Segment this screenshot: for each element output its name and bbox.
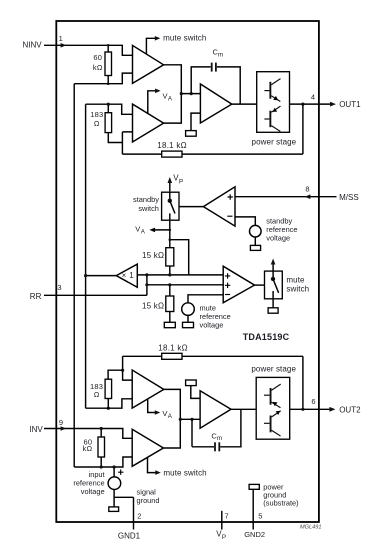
svg-text:18.1 kΩ: 18.1 kΩ [157,141,187,150]
svg-text:voltage: voltage [200,320,224,329]
svg-text:mute: mute [286,276,305,285]
svg-text:standby: standby [133,195,159,204]
svg-text:4: 4 [311,93,315,102]
svg-text:power stage: power stage [251,365,296,374]
svg-text:(substrate): (substrate) [263,499,298,508]
svg-text:ground: ground [137,496,160,505]
svg-text:1: 1 [59,34,63,43]
svg-text:GND1: GND1 [118,532,141,541]
svg-text:NINV: NINV [23,40,43,49]
svg-text:switch: switch [286,285,309,294]
svg-text:GND2: GND2 [244,530,265,539]
svg-text:Ω: Ω [94,119,100,128]
svg-text:P: P [179,178,183,185]
svg-text:kΩ: kΩ [93,63,103,72]
svg-text:9: 9 [59,418,63,427]
svg-text:switch: switch [138,204,159,213]
svg-text:7: 7 [225,512,229,521]
svg-text:voltage: voltage [81,487,105,496]
svg-text:2: 2 [137,511,141,520]
svg-text:V: V [162,409,167,418]
svg-text:15 kΩ: 15 kΩ [142,251,164,260]
svg-text:voltage: voltage [266,233,290,242]
svg-text:m: m [218,51,223,58]
svg-text:m: m [217,435,222,442]
svg-text:INV: INV [29,425,43,434]
svg-text:Ω: Ω [94,390,100,399]
svg-text:RR: RR [30,292,42,301]
svg-text:6: 6 [311,397,315,406]
svg-text:mute switch: mute switch [163,468,206,477]
svg-text:60: 60 [93,53,102,62]
svg-text:P: P [222,534,226,541]
svg-text:183: 183 [90,110,103,119]
svg-text:mute switch: mute switch [163,34,206,43]
svg-text:MGL491: MGL491 [300,524,321,530]
svg-text:A: A [168,413,173,420]
svg-text:OUT1: OUT1 [339,100,361,109]
svg-text:kΩ: kΩ [83,444,93,453]
svg-text:power stage: power stage [252,137,297,146]
svg-text:5: 5 [258,511,262,520]
svg-text:M/SS: M/SS [339,193,359,202]
svg-text:3: 3 [57,283,61,292]
svg-text:TDA1519C: TDA1519C [243,332,290,342]
svg-text:18.1 kΩ: 18.1 kΩ [158,344,188,353]
svg-text:V: V [163,92,168,101]
svg-text:15 kΩ: 15 kΩ [142,301,164,310]
svg-text:OUT2: OUT2 [339,405,361,414]
svg-text:8: 8 [305,185,309,194]
svg-text:× 1: × 1 [122,271,135,280]
svg-text:V: V [135,225,140,234]
svg-text:A: A [168,95,173,102]
svg-text:A: A [141,229,146,236]
